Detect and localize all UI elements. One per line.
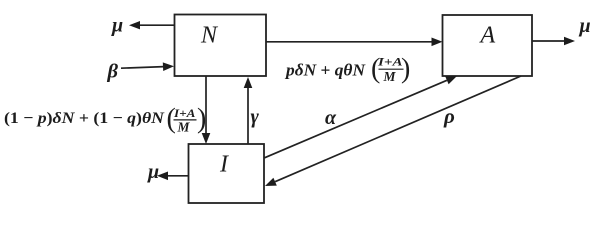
svg-text:N: N: [200, 22, 219, 48]
svg-text:(1 − p)δN + (1 − q)θN: (1 − p)δN + (1 − q)θN: [4, 110, 166, 127]
svg-text:I: I: [219, 151, 229, 177]
label mu (left of I): [147, 161, 159, 183]
svg-text:I+A: I+A: [173, 106, 196, 120]
svg-text:A: A: [479, 22, 496, 48]
label mu (right of A): [579, 15, 591, 37]
arrow N to I (vertical): [202, 76, 211, 144]
svg-text:β: β: [107, 61, 119, 83]
label (1-p) delta N + (1-q) theta N (I+A/M): [4, 104, 206, 135]
arrow N to A: [266, 38, 443, 47]
svg-text:I+A: I+A: [377, 55, 403, 69]
svg-text:μ: μ: [579, 15, 591, 37]
svg-text:α: α: [325, 107, 337, 129]
label p delta N + q theta N (I+A/M): [284, 54, 410, 85]
svg-text:μ: μ: [111, 15, 123, 37]
label I: [219, 151, 229, 177]
arrow I to N (gamma): [244, 77, 253, 144]
svg-text:): ): [197, 104, 206, 135]
compartment box A: [443, 15, 533, 76]
label gamma: [251, 106, 260, 128]
svg-text:M: M: [177, 120, 191, 135]
label A: [479, 22, 496, 48]
label alpha: [325, 107, 337, 129]
svg-text:M: M: [383, 69, 397, 84]
arrow mu out of A (right): [532, 37, 575, 46]
svg-text:pδN + qθN: pδN + qθN: [284, 61, 366, 80]
arrow rho A to I (diagonal): [265, 76, 521, 186]
svg-text:): ): [401, 54, 410, 85]
label N: [200, 22, 219, 48]
arrow alpha I to A (diagonal): [265, 76, 458, 158]
label beta: [107, 61, 119, 83]
svg-text:γ: γ: [251, 106, 260, 128]
arrow mu out of I (left): [157, 172, 189, 181]
compartment box N: [175, 15, 267, 77]
arrow mu out of N (left): [129, 21, 175, 29]
arrow beta into N: [121, 62, 174, 71]
label mu (top left): [111, 15, 123, 37]
compartment box I: [189, 144, 265, 203]
svg-text:ρ: ρ: [443, 104, 455, 128]
label rho: [443, 104, 455, 128]
svg-text:μ: μ: [147, 161, 159, 183]
